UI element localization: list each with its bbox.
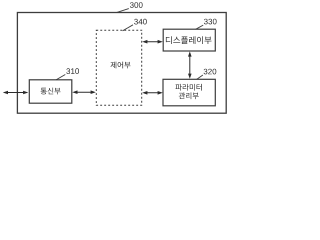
vertical double arrow 디스플레이부-파라미터관리부 [189,53,191,77]
double arrow 제어부-디스플레이부 [144,41,161,43]
double arrow 제어부-파라미터관리부 [144,92,161,94]
external interface double arrow (left of 통신부) [5,92,27,94]
text 통신부 [41,88,61,95]
text 관리부 [179,92,199,99]
label 340 [134,19,147,25]
block: communication unit 310 (통신부) [29,80,72,103]
leader line for 340 [123,25,133,31]
leader line for 300 [117,9,129,13]
outer system box 300 [17,13,226,114]
leader line for 320 [197,75,203,79]
leader line for 330 [196,25,204,29]
text 파라미터 [175,84,201,91]
label 330 [204,19,217,25]
double arrow 통신부-제어부 [74,91,94,93]
text 디스플레이부 [166,36,212,44]
block: control unit 340 (제어부, dashed) [96,30,141,105]
leader line for 310 [56,75,65,80]
label 300 [130,2,143,8]
label 320 [204,69,217,75]
block: display unit 330 (디스플레이부) [163,29,215,51]
block: parameter management unit 320 (파라미터 관리부) [163,79,215,106]
label 310 [66,68,79,74]
text 제어부 [110,62,130,69]
